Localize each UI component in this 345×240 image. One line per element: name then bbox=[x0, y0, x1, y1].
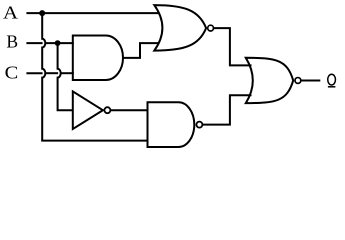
NAND gate U4 body bbox=[148, 102, 195, 147]
wire NOR U1 output jog down to NOR U5 input bbox=[213, 28, 251, 65]
NOR U5 output bubble bbox=[295, 78, 301, 84]
svg-text:C: C bbox=[5, 63, 19, 83]
svg-text:A: A bbox=[3, 2, 18, 22]
wire output Q bbox=[301, 79, 321, 81]
wire A bottom rail to NAND U4 input bbox=[41, 140, 147, 142]
node junction dot on A bbox=[39, 10, 45, 16]
wire NAND U4 output jog up to NOR U5 input bbox=[202, 95, 251, 124]
wire input B segments bbox=[26, 42, 42, 44]
NOT U3 output bubble bbox=[104, 107, 110, 113]
wire input A to NOR U1 bbox=[26, 12, 159, 14]
NOR gate U5 body bbox=[246, 58, 293, 103]
NAND U4 output bubble bbox=[196, 122, 202, 128]
output label Q bowl bbox=[328, 74, 336, 85]
svg-text:B: B bbox=[6, 32, 18, 52]
node junction dot on B bbox=[55, 40, 61, 46]
wire NOT U3 output to NAND U4 input bbox=[110, 109, 147, 111]
wire A vertical branch with hops over B and C rows bbox=[42, 13, 45, 141]
NOR gate U1 body bbox=[154, 5, 206, 51]
NOR U1 output bubble bbox=[208, 25, 214, 31]
wire input C segments to AND U2 bbox=[26, 72, 42, 74]
wire B vertical branch with hop over C row, to NOT U3 bbox=[58, 43, 73, 110]
AND gate U2 bbox=[73, 36, 123, 81]
output label Q tail bbox=[328, 86, 336, 88]
NOT gate U3 bbox=[73, 91, 103, 129]
wire AND U2 output jog up to NOR U1 input bbox=[123, 43, 160, 58]
